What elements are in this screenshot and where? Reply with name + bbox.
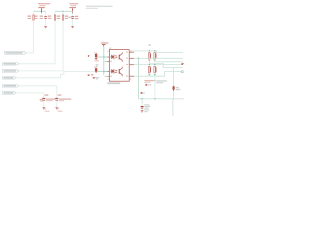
node junction RB top (154, 50, 155, 51)
svg-text:GND: GND (45, 111, 50, 113)
wire pin5 jog output (134, 72, 181, 77)
U2 pin 2 stub (105, 60, 108, 62)
node junction RA2 top (149, 64, 150, 65)
net label IN0 (4, 52, 26, 55)
sheet box corner (173, 99, 184, 116)
wire C1 to ground (45, 19, 47, 26)
wire R3 down to label IN2 (19, 20, 63, 71)
wire bus2 top (55, 10, 73, 12)
pin number 8 (130, 51, 131, 52)
node junction bus2 (62, 11, 63, 12)
wire C2 to ground (72, 19, 74, 26)
capacitor C1 (40, 11, 52, 19)
resistor R6 (149, 65, 151, 73)
U2 pin 5 stub (129, 75, 134, 77)
wire R7 stub below (154, 73, 156, 75)
pin name specks inside U2 (110, 52, 128, 77)
capacitor C9 (141, 106, 144, 107)
U2 internal transistor cell 1 (119, 52, 122, 62)
resistor R3 (62, 11, 68, 20)
wire C6 to ground (56, 101, 58, 108)
ground GND1 (44, 26, 47, 28)
note text block (86, 6, 113, 9)
power flag PWR1 (38, 3, 50, 11)
resistor R7 (154, 65, 156, 73)
node junction C9 tap (141, 98, 142, 99)
node junction pin1 (103, 56, 104, 57)
net label IN4 (2, 85, 19, 88)
wire C9 bottom (141, 109, 143, 111)
capacitor C7 (40, 94, 56, 101)
node junction RA top (149, 50, 150, 51)
wire pin7 branch down (138, 58, 140, 99)
wire label IN4 to capacitor C6 (19, 86, 57, 98)
wire vertical feed to U2 left pins (103, 46, 105, 75)
diode D2 (88, 67, 104, 80)
wire bottom run to sheet (139, 98, 173, 100)
net label arrow right OUT2 (181, 71, 184, 73)
U2 internal LED cell 2 (111, 69, 117, 74)
U2 internal transistor cell 2 (119, 67, 122, 77)
pin number 1 (108, 51, 109, 52)
pin number 4 (108, 79, 109, 80)
node junction R7 bottom tap (154, 98, 155, 99)
wire C7 to ground (43, 101, 45, 108)
wire R7 bottom to bottom run (154, 76, 156, 99)
resistor R2 (54, 11, 60, 20)
ground GND9 (141, 111, 144, 113)
U2 internal LED cell 1 (111, 55, 117, 60)
wire R2 down to label IN1 (19, 20, 55, 64)
power pin tick PWR1 (40, 12, 42, 14)
wire pin7 output (134, 57, 183, 59)
text note above rail (148, 44, 151, 45)
capacitor C6 (55, 94, 71, 101)
wire label IN5 to capacitor C7 (16, 93, 44, 98)
node junction pin3 (103, 71, 104, 72)
wire rail VCC pull-ups (131, 51, 183, 53)
net label IN5 (2, 92, 16, 95)
U2 pin 6 stub (129, 64, 134, 66)
ground GND6 (55, 108, 62, 113)
text gnd iso note (156, 80, 167, 81)
node junction RB2 top (154, 64, 155, 65)
wire D3 to sheet box (173, 91, 175, 99)
wire branch down to sheet (173, 68, 175, 87)
svg-text:GND: GND (58, 111, 63, 113)
wire rail2 pin6 (134, 64, 183, 66)
net label IN1 (2, 63, 19, 66)
wire R5 bottom to right (155, 59, 183, 62)
resistor R4 (149, 51, 151, 59)
resistor R5 (154, 51, 156, 59)
ground GND7 (42, 108, 49, 113)
U2 pin 7 stub (129, 57, 134, 59)
U2 pin 3 stub (104, 70, 107, 72)
capacitor C2 (68, 11, 78, 19)
tick mark R7 bottom (154, 74, 156, 76)
wire R1 down to label IN0 (26, 20, 34, 53)
resistor R1 (28, 11, 38, 20)
U2 pin 4 stub (105, 75, 108, 77)
wire R4 bottom zigzag down to D3 (149, 59, 183, 68)
net label IN3 (2, 77, 16, 80)
U2 pin 1 stub (104, 56, 107, 58)
net label mark near C9 (141, 92, 143, 94)
node junction bus1 (41, 11, 42, 12)
wire R6 stub below (148, 73, 150, 75)
wire label IN3 staircase to U2 pin 3 (16, 71, 104, 77)
wire C9 top (141, 99, 143, 106)
net label IN2 (2, 70, 19, 73)
tick mark R6 bottom (148, 74, 150, 76)
text under resistor cluster (144, 80, 156, 86)
text C9 value lines (144, 104, 150, 112)
ground GND2 (71, 26, 74, 28)
value text specks below upper resistors (148, 60, 151, 61)
op-amp U2 optocoupler box (107, 48, 129, 84)
svg-text:GND: GND (94, 60, 99, 62)
pin number 5 (130, 79, 131, 80)
U2 pin 8 stub (129, 51, 134, 53)
net label red mark right edge (181, 63, 183, 66)
power pin tick PWR2 (72, 12, 74, 14)
power flag PWR3 above U2 (101, 42, 109, 46)
diode D3 (173, 86, 181, 91)
node junction pin7 branch (138, 58, 139, 59)
power flag PWR2 (69, 3, 78, 11)
diode D1 (88, 52, 104, 66)
wire bus1 top (34, 10, 46, 12)
